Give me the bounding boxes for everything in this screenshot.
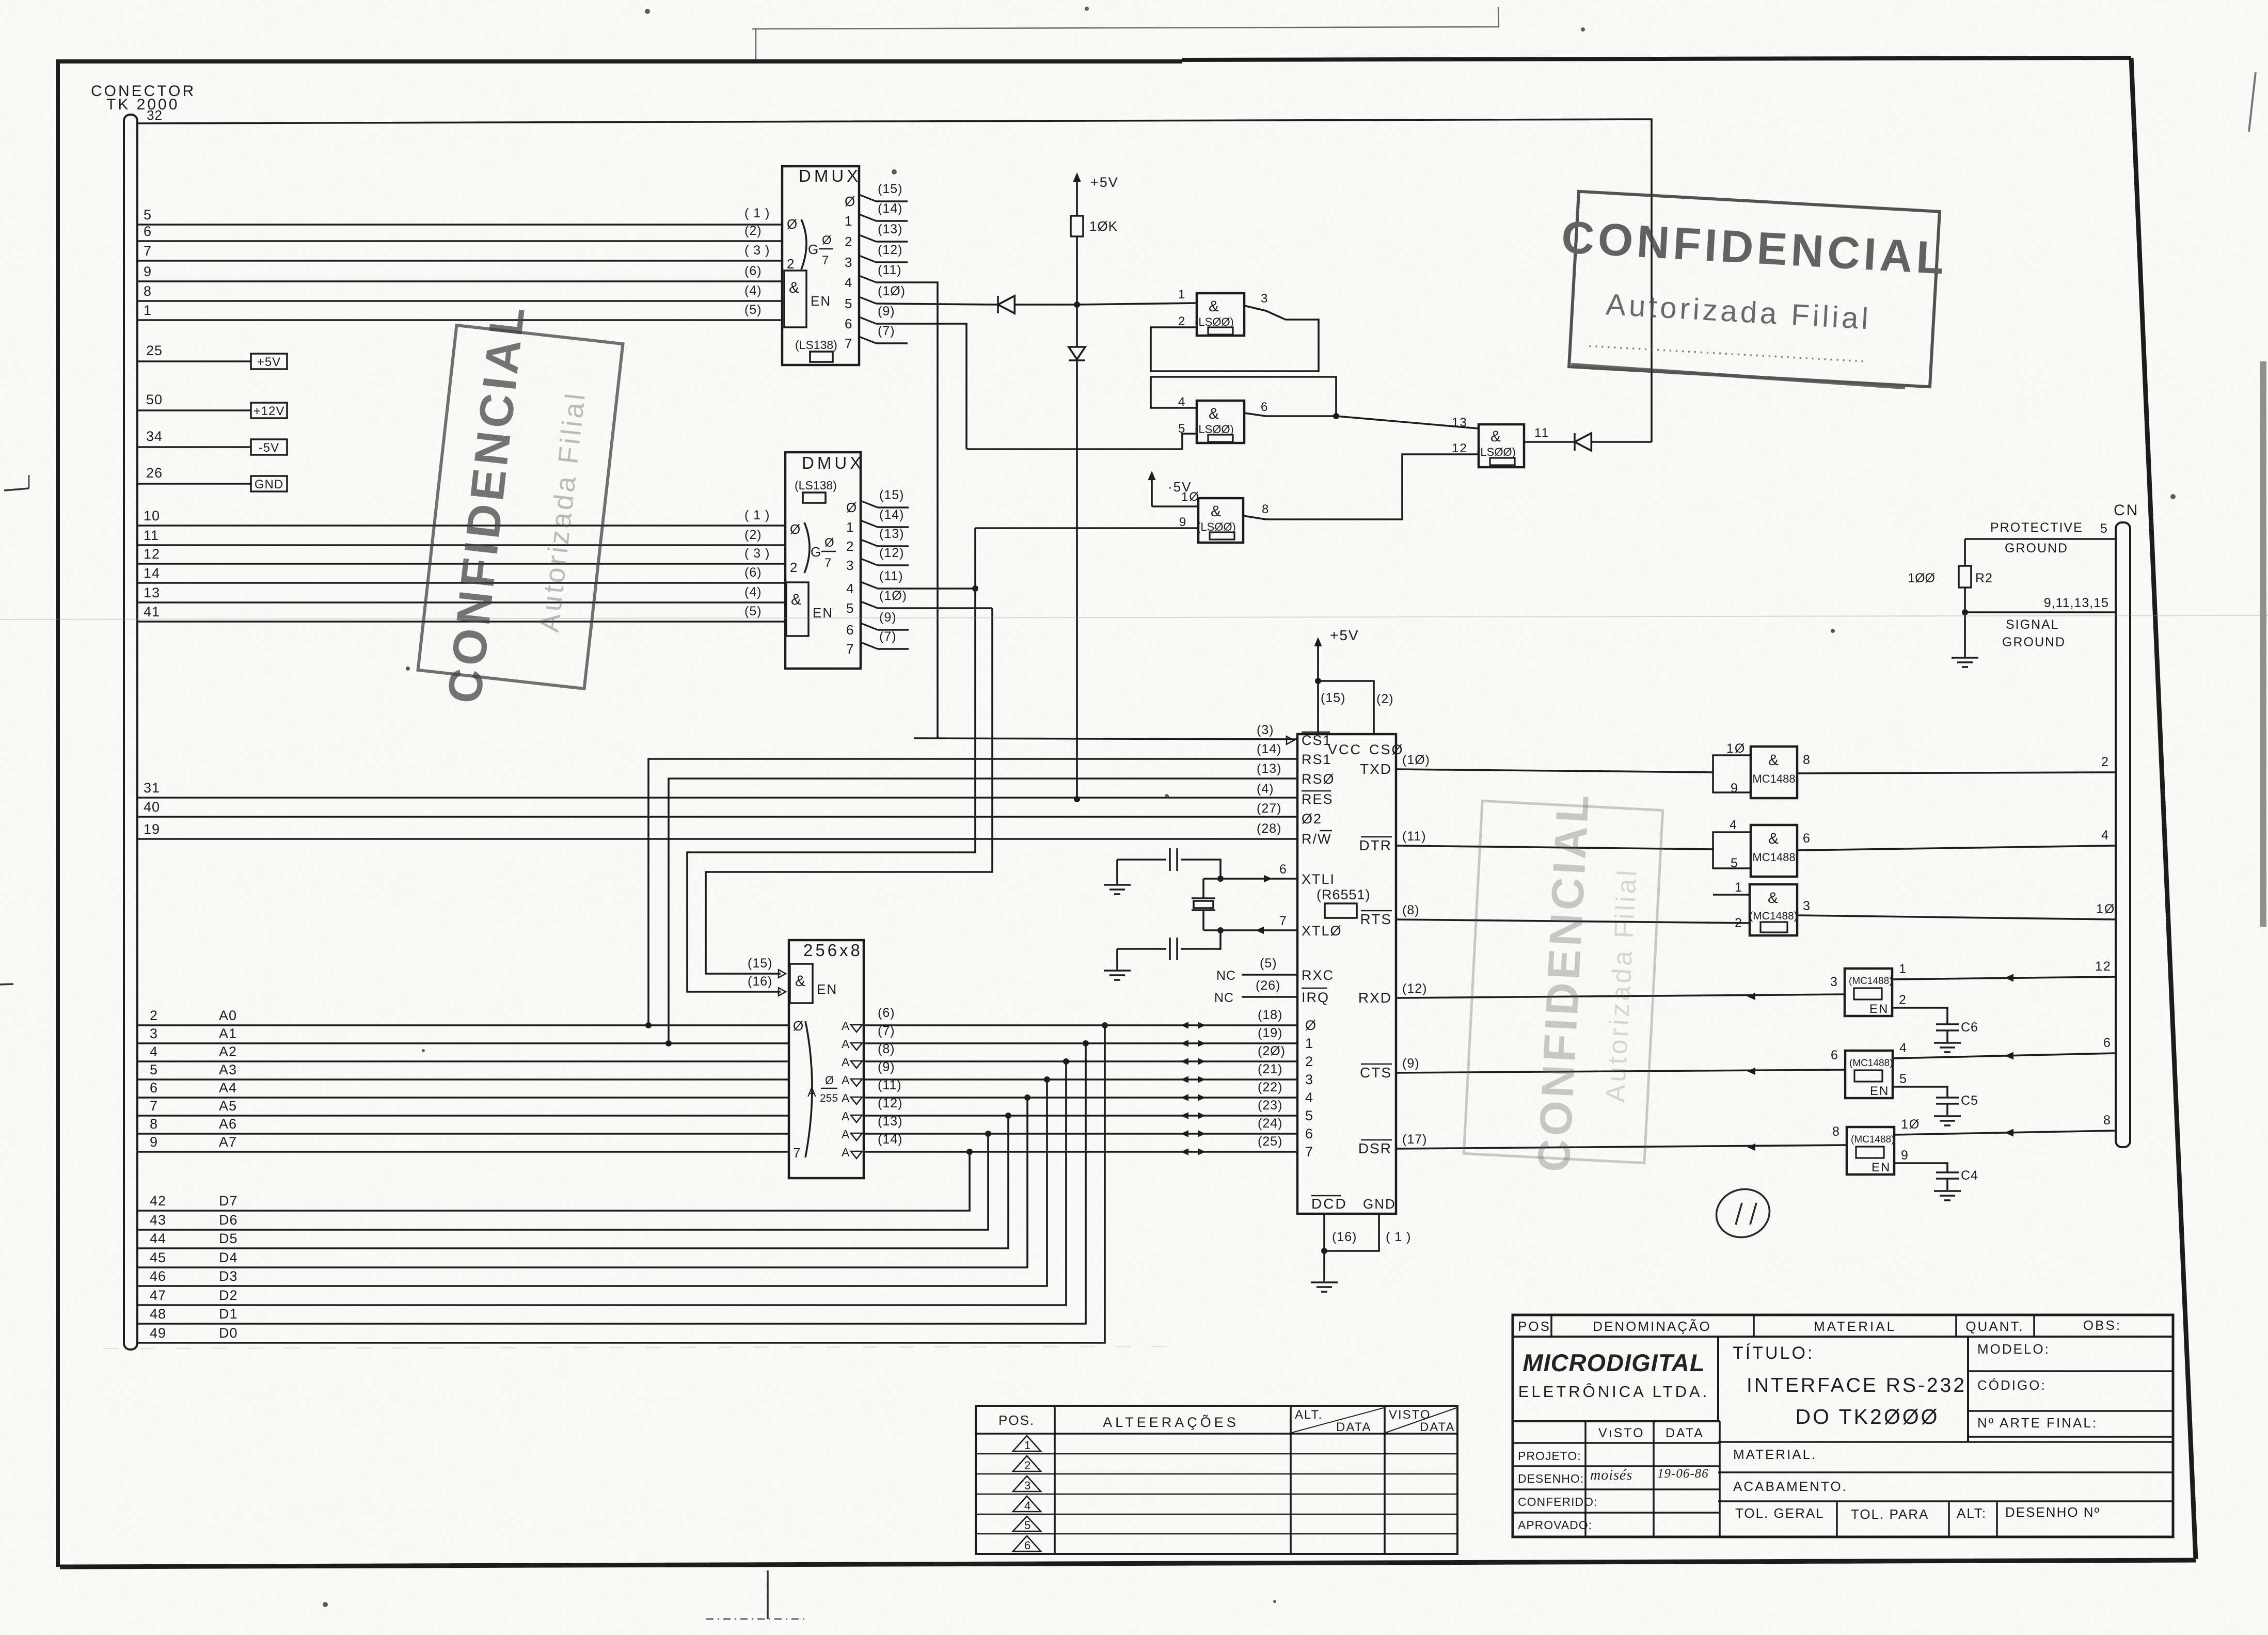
svg-text:A4: A4 — [219, 1080, 237, 1096]
svg-text:10: 10 — [144, 508, 160, 523]
pin TXD of U6 — [1360, 753, 1430, 777]
svg-text:A5: A5 — [219, 1098, 237, 1114]
svg-text:DTR: DTR — [1359, 837, 1392, 853]
svg-text:INTERFACE RS-232: INTERFACE RS-232 — [1747, 1374, 1966, 1396]
wire U2b output6 to U3d input13 — [1244, 413, 1479, 428]
ground symbol signal ground — [1952, 612, 1978, 667]
svg-text:(11): (11) — [878, 1078, 902, 1092]
svg-text:DMUX: DMUX — [802, 453, 864, 472]
svg-text:(9): (9) — [1402, 1056, 1420, 1071]
svg-text:&: & — [1209, 298, 1220, 315]
svg-text:&: & — [1209, 405, 1220, 422]
svg-text:(6): (6) — [878, 1006, 895, 1020]
svg-text:4: 4 — [1305, 1090, 1314, 1105]
connector CN RS-232 — [2114, 502, 2139, 1147]
svg-text:&: & — [1768, 830, 1780, 847]
svg-text:6: 6 — [1803, 831, 1811, 846]
svg-text:9: 9 — [1179, 515, 1187, 529]
title text INTERFACE RS-232 DO TK2000 — [1733, 1337, 1968, 1442]
annotation circled 11 — [1710, 1182, 1775, 1244]
svg-text:A: A — [842, 1109, 850, 1123]
wire D2 pin 47 — [137, 1058, 1069, 1305]
pin RS1 of U6 — [1257, 742, 1332, 767]
U4 internals — [786, 500, 858, 657]
svg-text:11: 11 — [1534, 426, 1549, 440]
svg-text:(13): (13) — [1257, 761, 1281, 776]
svg-text:6: 6 — [2103, 1036, 2112, 1050]
svg-text:(15): (15) — [748, 956, 772, 971]
svg-text:1: 1 — [1735, 880, 1743, 895]
svg-text:40: 40 — [144, 799, 160, 815]
svg-text:DATA: DATA — [1666, 1426, 1704, 1440]
svg-text:DSR: DSR — [1358, 1140, 1392, 1156]
svg-text:A: A — [842, 1146, 850, 1159]
svg-text:6: 6 — [1305, 1126, 1314, 1141]
designator LS138 of U4 — [795, 479, 837, 503]
svg-text:(LSØØ): (LSØØ) — [1195, 315, 1234, 328]
svg-text:9: 9 — [1901, 1148, 1909, 1163]
pin CTS of U6 — [1360, 1056, 1420, 1081]
svg-text:(6): (6) — [744, 565, 762, 580]
line driver U7c MC1488 RTS — [1396, 880, 2116, 935]
line driver U7b MC1488 DTR — [1396, 818, 2116, 877]
svg-text:A: A — [842, 1019, 850, 1033]
svg-text:MATERIAL.: MATERIAL. — [1733, 1447, 1817, 1462]
svg-text:(26): (26) — [1256, 978, 1280, 993]
svg-text:APROVADO:: APROVADO: — [1518, 1518, 1592, 1532]
svg-text:A1: A1 — [219, 1026, 237, 1041]
svg-text:EN: EN — [1870, 1084, 1889, 1098]
svg-text:2: 2 — [845, 234, 853, 249]
svg-text:( 1 ): ( 1 ) — [744, 206, 770, 220]
NAND gate U2b LS00 pins 4 5 output 6 — [1178, 395, 1268, 443]
svg-text:DENOMINAÇÃO: DENOMINAÇÃO — [1593, 1319, 1711, 1334]
svg-text:5: 5 — [1899, 1072, 1908, 1086]
svg-text:(LSØØ): (LSØØ) — [1197, 520, 1236, 533]
wire gate U2a input 1 from rail — [1077, 303, 1197, 305]
svg-text:(7): (7) — [878, 1024, 895, 1038]
pin XTLO of U6 — [1203, 914, 1342, 939]
svg-text:(11): (11) — [879, 569, 903, 583]
pin DTR of U6 — [1359, 829, 1426, 853]
pin D5 of U6 — [1258, 1098, 1314, 1123]
svg-text:(1Ø): (1Ø) — [878, 284, 906, 298]
svg-text:4: 4 — [1730, 818, 1738, 832]
svg-text:2: 2 — [1899, 993, 1907, 1007]
wire pin 13 — [137, 585, 785, 602]
svg-text:CONFERIDO:: CONFERIDO: — [1518, 1495, 1597, 1509]
svg-text:POS: POS — [1518, 1319, 1551, 1334]
stamp CONFIDENCIAL top right — [1554, 191, 1950, 389]
svg-text:D6: D6 — [219, 1212, 238, 1228]
svg-text:A7: A7 — [219, 1134, 237, 1150]
svg-text:1Ø: 1Ø — [1181, 490, 1200, 504]
wire U2c output8 to U3d input12 — [1243, 454, 1479, 519]
svg-text:&: & — [1211, 503, 1222, 520]
svg-text:2: 2 — [846, 538, 854, 554]
pin RXD of U6 — [1358, 981, 1428, 1006]
wire net EN15 DMUX2(10) to PROM EN — [706, 608, 992, 978]
stamp CONFIDENCIAL middle faint — [1464, 801, 1662, 1163]
power +5V arrow for R1 pull-up — [1073, 172, 1118, 216]
svg-text:&: & — [1490, 428, 1502, 445]
svg-text:5: 5 — [150, 1062, 158, 1077]
svg-text:3: 3 — [1305, 1072, 1314, 1087]
svg-text:(8): (8) — [878, 1042, 895, 1056]
svg-text:(MC1488): (MC1488) — [1749, 910, 1797, 922]
wire DMUX2 output (14) — [861, 507, 909, 527]
svg-text:CS1: CS1 — [1302, 733, 1332, 748]
svg-text:(27): (27) — [1257, 801, 1281, 816]
svg-text:(25): (25) — [1258, 1134, 1282, 1149]
power +5V to R6551 VCC CS0 — [1314, 627, 1393, 734]
svg-text:(5): (5) — [744, 303, 762, 317]
svg-text:A: A — [842, 1091, 850, 1105]
svg-text:32: 32 — [147, 107, 163, 123]
svg-text:MODELO:: MODELO: — [1977, 1341, 2050, 1357]
svg-text:(13): (13) — [878, 222, 902, 236]
wire net EN16 DMUX2(11) to PROM EN and U2c pin9 — [687, 528, 975, 996]
svg-text:(7): (7) — [879, 629, 897, 644]
wire GND of U6 to ground — [1321, 1214, 1411, 1281]
svg-text:7: 7 — [1305, 1144, 1314, 1160]
svg-text:7: 7 — [824, 556, 832, 570]
wire bus row (11) PROM output to R6551 — [842, 1078, 1297, 1105]
svg-text:DO TK2ØØØ: DO TK2ØØØ — [1795, 1405, 1939, 1428]
pin D7 of U6 — [1258, 1134, 1314, 1160]
svg-text:ACABAMENTO.: ACABAMENTO. — [1733, 1479, 1848, 1494]
cell TOL row — [1718, 1501, 2173, 1537]
svg-text:31: 31 — [144, 780, 160, 796]
wire pin 9 — [137, 264, 782, 281]
svg-text:TXD: TXD — [1360, 761, 1392, 777]
svg-text:(18): (18) — [1258, 1008, 1282, 1022]
designator LS138 of U1 — [795, 338, 837, 362]
svg-text:4: 4 — [845, 275, 853, 290]
svg-text:&: & — [791, 591, 802, 608]
ground for C1 — [1104, 860, 1131, 894]
svg-text:8: 8 — [144, 283, 152, 299]
svg-text:42: 42 — [150, 1193, 166, 1209]
svg-text:ELETRÔNICA LTDA.: ELETRÔNICA LTDA. — [1518, 1383, 1710, 1401]
pin RES of U6 — [1257, 782, 1334, 807]
svg-text:(6): (6) — [744, 264, 762, 278]
ground symbol under U6 — [1311, 1281, 1338, 1283]
svg-text:(13): (13) — [879, 527, 904, 541]
svg-text:5: 5 — [846, 600, 854, 616]
wire bus row (12) PROM output to R6551 — [842, 1096, 1297, 1123]
svg-text:4: 4 — [150, 1044, 158, 1059]
table alteracoes — [976, 1406, 1457, 1554]
svg-text:+12V: +12V — [253, 404, 285, 418]
svg-text:RTS: RTS — [1360, 911, 1392, 927]
capacitor C2 bottom — [1117, 927, 1224, 960]
wire pin 31 — [137, 780, 1297, 798]
svg-text:4: 4 — [1178, 395, 1186, 409]
svg-text:1: 1 — [144, 303, 152, 318]
svg-text:(14): (14) — [878, 201, 902, 216]
svg-text:47: 47 — [150, 1288, 166, 1303]
svg-text:(14): (14) — [878, 1132, 902, 1147]
wire A6 pin 8 — [137, 1116, 789, 1134]
svg-text:(LSØØ): (LSØØ) — [1195, 423, 1234, 436]
svg-text:MC1488: MC1488 — [1752, 772, 1795, 785]
wire U2b feedback output6 to input4 — [1151, 377, 1339, 419]
svg-text:(5): (5) — [744, 604, 762, 618]
revision triangle 3 — [1013, 1476, 1041, 1492]
svg-text:Ø: Ø — [790, 521, 801, 537]
svg-text:DATA: DATA — [1336, 1420, 1371, 1434]
svg-text:G: G — [811, 544, 822, 560]
revision triangle 6 — [1013, 1536, 1041, 1552]
svg-text:CÓDIGO:: CÓDIGO: — [1977, 1377, 2047, 1393]
svg-text:D4: D4 — [219, 1250, 238, 1265]
svg-text:ALTEERAÇÕES: ALTEERAÇÕES — [1103, 1414, 1239, 1430]
svg-text:12: 12 — [2095, 959, 2112, 974]
handwritten moises signature — [1590, 1467, 1709, 1483]
svg-text:EN: EN — [811, 293, 831, 309]
svg-text:1: 1 — [845, 213, 853, 229]
svg-text:(15): (15) — [878, 182, 902, 196]
wire DMUX2 output (9) — [861, 610, 909, 630]
svg-text:11: 11 — [144, 528, 159, 543]
svg-text:12: 12 — [144, 546, 160, 562]
svg-text:( 3 ): ( 3 ) — [744, 243, 770, 258]
svg-text:EN: EN — [817, 981, 837, 997]
svg-text:Nº ARTE FINAL:: Nº ARTE FINAL: — [1977, 1415, 2098, 1431]
svg-text:DCD: DCD — [1311, 1196, 1347, 1212]
svg-text:1Ø: 1Ø — [1901, 1117, 1920, 1132]
wire DMUX2 output (11) — [861, 569, 978, 592]
svg-text:CN: CN — [2114, 502, 2139, 519]
wire DMUX2 output (12) — [861, 546, 909, 565]
svg-text:7: 7 — [846, 641, 854, 657]
svg-text:13: 13 — [144, 585, 160, 600]
wire DMUX2 output (7) — [861, 629, 909, 649]
svg-text:5: 5 — [1731, 856, 1739, 870]
svg-text:(MC1488): (MC1488) — [1849, 976, 1892, 987]
svg-text:12: 12 — [1452, 441, 1468, 455]
svg-text:DESENHO Nº: DESENHO Nº — [2005, 1504, 2100, 1520]
svg-text:A: A — [807, 1085, 817, 1100]
power +5V arrow for gate U2c — [1148, 471, 1192, 506]
svg-text:GROUND: GROUND — [2005, 541, 2068, 555]
svg-text:7: 7 — [822, 253, 830, 267]
wire A5 pin 7 — [137, 1098, 789, 1116]
svg-text:3: 3 — [1803, 899, 1811, 913]
wire U2b input5 from DMUX1 output (9) — [966, 434, 1197, 449]
svg-text:6: 6 — [144, 224, 152, 239]
wire D3 pin 46 — [137, 1076, 1050, 1286]
svg-text:XTLØ: XTLØ — [1302, 923, 1342, 939]
svg-text:C5: C5 — [1961, 1093, 1978, 1108]
wire pin 1 — [137, 303, 782, 320]
svg-text:PROJETO:: PROJETO: — [1518, 1449, 1581, 1463]
svg-text:D5: D5 — [219, 1231, 238, 1246]
wire bus row (14) PROM output to R6551 — [842, 1132, 1297, 1159]
svg-text:(28): (28) — [1257, 821, 1281, 836]
power tap -5V pin 34 — [137, 428, 287, 455]
wire D7 pin 42 — [137, 1149, 973, 1211]
svg-text:A: A — [842, 1128, 850, 1141]
svg-text:4: 4 — [2101, 828, 2110, 843]
svg-text:1: 1 — [1178, 288, 1186, 301]
svg-text:3: 3 — [846, 558, 854, 573]
wire U2c input9 from EN16 net — [975, 527, 1198, 529]
svg-text:RXC: RXC — [1302, 967, 1334, 983]
svg-text:TÍTULO:: TÍTULO: — [1733, 1343, 1814, 1363]
pin D1 of U6 — [1258, 1026, 1314, 1051]
svg-text:(12): (12) — [879, 546, 904, 560]
cell MATERIAL row — [1718, 1442, 2173, 1462]
wire pin 5 — [137, 207, 782, 225]
svg-text:RS1: RS1 — [1302, 752, 1332, 767]
wire A4 pin 6 — [137, 1080, 789, 1098]
svg-text:GND: GND — [1363, 1196, 1396, 1212]
resistor R2 100 — [1908, 539, 1993, 612]
svg-text:19-06-86: 19-06-86 — [1657, 1467, 1709, 1481]
wire bus row (9) PROM output to R6551 — [842, 1060, 1297, 1087]
svg-text:8: 8 — [150, 1116, 158, 1132]
wire bus row (13) PROM output to R6551 — [842, 1114, 1297, 1141]
wire A7 pin 9 — [137, 1134, 789, 1152]
svg-text:(MC1488): (MC1488) — [1851, 1134, 1894, 1145]
svg-text:(LS138): (LS138) — [795, 479, 837, 492]
svg-text:(12): (12) — [878, 1096, 902, 1110]
wire D4 pin 45 — [137, 1094, 1030, 1267]
svg-text:TOL. GERAL: TOL. GERAL — [1735, 1505, 1825, 1521]
wire bus row (8) PROM output to R6551 — [842, 1042, 1297, 1069]
svg-text:Ø: Ø — [1305, 1018, 1317, 1033]
svg-text:A: A — [842, 1055, 850, 1069]
svg-text:(11): (11) — [878, 263, 902, 277]
svg-text:7: 7 — [1279, 914, 1288, 928]
svg-text:Ø: Ø — [845, 194, 856, 209]
svg-text:1: 1 — [846, 519, 854, 535]
wire DMUX1 output (7) — [859, 324, 908, 343]
svg-text:(17): (17) — [1402, 1132, 1427, 1147]
svg-text:(4): (4) — [744, 585, 762, 599]
wire pin 12 — [137, 546, 785, 564]
svg-text:R2: R2 — [1975, 571, 1993, 585]
svg-text:( 3 ): ( 3 ) — [744, 546, 770, 561]
svg-text:1Ø: 1Ø — [1726, 741, 1746, 756]
svg-text:A0: A0 — [219, 1008, 237, 1023]
svg-text:3: 3 — [1830, 975, 1838, 989]
svg-text:(13): (13) — [878, 1114, 902, 1129]
diode D3 — [1575, 433, 1652, 451]
svg-text:Ø: Ø — [793, 1018, 804, 1034]
IC U6 R6551 ACIA — [1297, 734, 1404, 1214]
ground for C2 — [1104, 949, 1131, 980]
wire A0 pin 2 — [137, 1008, 789, 1025]
svg-text:(15): (15) — [879, 488, 904, 502]
svg-text:(MC1488): (MC1488) — [1849, 1058, 1893, 1069]
connector CN TK2000 bus header — [91, 83, 196, 1350]
svg-text:9: 9 — [150, 1134, 158, 1150]
wire signal ground pins 9 11 13 15 — [1962, 596, 2116, 649]
wire bus row (6) PROM output to R6551 — [842, 1006, 1297, 1033]
wire bus row (7) PROM output to R6551 — [842, 1024, 1297, 1051]
capacitor C1 top — [1117, 848, 1224, 882]
svg-text:(1Ø): (1Ø) — [879, 589, 907, 603]
power tap +5V pin 25 — [137, 343, 287, 369]
svg-text:255: 255 — [820, 1092, 838, 1104]
wire pin 41 — [137, 604, 785, 622]
svg-text:DMUX: DMUX — [799, 166, 861, 185]
svg-text:8: 8 — [2103, 1113, 2112, 1128]
svg-text:2: 2 — [1024, 1459, 1032, 1472]
revision triangle 1 — [1013, 1436, 1041, 1452]
pin D0 of U6 — [1258, 1008, 1317, 1033]
svg-text:7: 7 — [144, 243, 152, 259]
wire A3 pin 5 — [137, 1062, 789, 1080]
pin IRQ of U6 NC — [1214, 978, 1329, 1005]
svg-text:(8): (8) — [1402, 903, 1420, 917]
wire DMUX1 output (1Ø) — [859, 284, 998, 305]
svg-text:SIGNAL: SIGNAL — [2006, 617, 2059, 632]
svg-text:8: 8 — [1262, 502, 1270, 516]
svg-text:3: 3 — [150, 1026, 158, 1041]
svg-text:Ø: Ø — [824, 536, 835, 550]
power tap GND pin 26 — [137, 465, 287, 491]
svg-text:25: 25 — [146, 343, 163, 358]
svg-text:5: 5 — [2100, 521, 2108, 536]
svg-text:(R6551): (R6551) — [1317, 887, 1371, 902]
svg-text:(16): (16) — [748, 974, 772, 989]
svg-text:2: 2 — [2101, 755, 2110, 769]
wire pin 14 — [137, 565, 785, 583]
svg-text:26: 26 — [146, 465, 163, 481]
NAND gate U2a LS00 pins 1 2 output 3 — [1178, 288, 1268, 336]
svg-text:A6: A6 — [219, 1116, 237, 1132]
svg-text:(5): (5) — [1260, 956, 1277, 971]
wire CS1 from DMUX1 output (11) — [914, 738, 1297, 739]
wire pin 7 — [137, 243, 782, 261]
wire pin 8 — [137, 283, 782, 301]
svg-text:5: 5 — [1024, 1519, 1032, 1532]
svg-text:&: & — [789, 279, 800, 296]
svg-text:44: 44 — [150, 1231, 166, 1246]
wire DMUX1 output (13) — [859, 222, 908, 242]
wire +5V rail to RES — [1074, 236, 1080, 802]
line driver U7a MC1488 TXD — [1396, 741, 2116, 798]
svg-text:IRQ: IRQ — [1302, 990, 1329, 1005]
svg-text:ALT.: ALT. — [1295, 1408, 1323, 1422]
wire DMUX2 output (1Ø) — [861, 589, 992, 608]
svg-text:43: 43 — [150, 1212, 166, 1228]
svg-text:G: G — [808, 242, 819, 257]
svg-text:Ø: Ø — [825, 1074, 835, 1087]
svg-text:MC1488: MC1488 — [1752, 851, 1795, 864]
signature table visto data — [1513, 1421, 1720, 1537]
svg-text:46: 46 — [150, 1268, 166, 1284]
svg-text:Ø2: Ø2 — [1302, 811, 1322, 827]
NAND gate U2c LS00 pins 10 9 output 8 — [1179, 490, 1270, 543]
wire DMUX1 output (11) — [859, 263, 938, 738]
svg-text:6: 6 — [1279, 862, 1288, 877]
svg-text:3: 3 — [1261, 292, 1268, 306]
svg-text:8: 8 — [1832, 1124, 1841, 1139]
svg-text:3: 3 — [845, 255, 853, 270]
svg-text:DESENHO:: DESENHO: — [1518, 1472, 1584, 1485]
stamp CONFIDENCIAL left rotated — [418, 325, 623, 689]
svg-text:5: 5 — [144, 207, 152, 223]
wire RS0 from A1 — [665, 779, 1297, 1046]
svg-text:OBS:: OBS: — [2083, 1317, 2121, 1333]
svg-text:8: 8 — [1803, 753, 1811, 767]
svg-text:2: 2 — [790, 560, 798, 575]
